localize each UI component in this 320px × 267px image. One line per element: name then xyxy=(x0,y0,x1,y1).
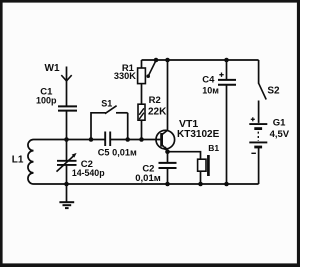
label R1 value xyxy=(114,63,136,81)
svg-text:G1: G1 xyxy=(273,117,286,128)
node C4 bottom junction xyxy=(224,182,229,187)
battery G1 xyxy=(249,117,267,153)
switch S1 xyxy=(91,106,128,140)
svg-text:22K: 22K xyxy=(148,107,167,118)
node B1 bottom junction xyxy=(198,182,203,187)
svg-text:14-540p: 14-540p xyxy=(72,168,105,178)
antenna W1 xyxy=(61,67,71,107)
svg-text:4,5V: 4,5V xyxy=(270,129,290,140)
label C1 value xyxy=(36,87,57,106)
resistor R2 xyxy=(138,104,145,139)
svg-text:330K: 330K xyxy=(114,71,136,81)
svg-text:C5 0,01м: C5 0,01м xyxy=(98,148,137,158)
wire battery to bottom rail xyxy=(258,147,260,184)
label C2 0,01m xyxy=(135,163,161,184)
node collector junction xyxy=(165,58,170,63)
svg-text:KT3102E: KT3102E xyxy=(177,129,220,140)
capacitor C2 (0,01m) xyxy=(159,152,177,184)
wire emitter to B1 xyxy=(168,152,201,160)
node C2 bottom junction xyxy=(165,182,170,187)
svg-text:L1: L1 xyxy=(12,155,24,166)
earphone B1 xyxy=(198,155,209,184)
node S1 right junction xyxy=(125,137,130,142)
capacitor C1 xyxy=(58,106,77,110)
resistor R1 (variable) xyxy=(138,60,156,84)
svg-text:B1: B1 xyxy=(208,143,219,153)
node tank-bottom junction xyxy=(64,182,69,187)
svg-text:W1: W1 xyxy=(45,63,60,74)
node S1 left junction xyxy=(89,137,94,142)
wire bottom rail xyxy=(34,183,259,185)
inductor L1 xyxy=(28,140,34,184)
wire top rail xyxy=(142,59,259,61)
label C2 14-540p xyxy=(72,159,105,178)
svg-text:R2: R2 xyxy=(149,95,161,106)
wire C1 to tank node xyxy=(66,111,68,140)
wire collector xyxy=(167,60,169,130)
node C4 top junction xyxy=(224,58,229,63)
svg-text:C4: C4 xyxy=(202,75,215,86)
svg-text:100p: 100p xyxy=(36,95,57,105)
wire tank top (left segment) xyxy=(34,139,106,141)
label R2 value xyxy=(148,95,167,117)
label C4 value xyxy=(202,75,219,96)
transistor VT1 xyxy=(156,130,175,151)
svg-text:S1: S1 xyxy=(101,98,112,108)
label G1 value xyxy=(270,117,290,140)
wire R1 to R2 xyxy=(141,84,143,105)
svg-text:S2: S2 xyxy=(267,86,280,97)
capacitor C4 xyxy=(218,60,236,184)
label VT1 type xyxy=(177,118,220,140)
node emitter junction xyxy=(165,149,170,154)
capacitor C5 xyxy=(105,132,110,147)
node R2 base junction xyxy=(139,137,144,142)
variable capacitor C2 (14-540p) xyxy=(57,140,77,185)
svg-text:0,01м: 0,01м xyxy=(135,173,161,184)
node C1/tank junction xyxy=(64,137,69,142)
node R1 wiper junction xyxy=(154,58,159,63)
ground xyxy=(59,184,74,208)
wire C5 to base xyxy=(110,139,160,141)
svg-text:10м: 10м xyxy=(202,86,219,96)
switch S2 xyxy=(259,60,267,123)
